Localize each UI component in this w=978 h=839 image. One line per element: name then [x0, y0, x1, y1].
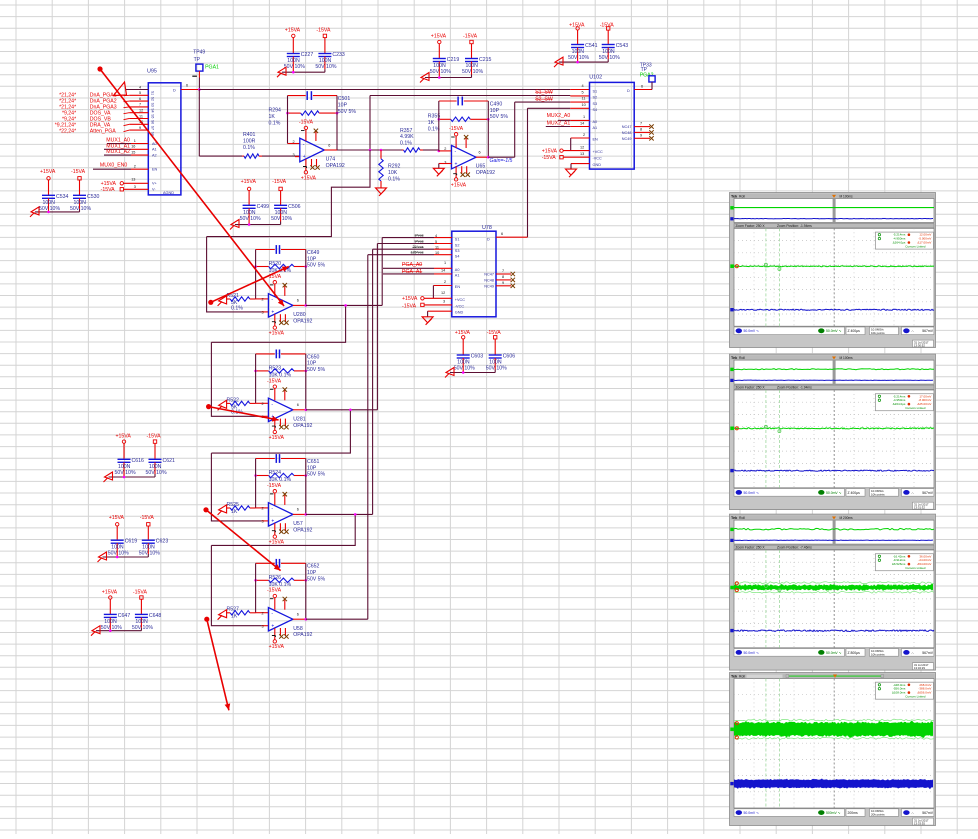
U102 pin A0 — [558, 119, 570, 121]
svg-text:50V 10%: 50V 10% — [101, 625, 122, 631]
svg-text:50V 10%: 50V 10% — [108, 551, 129, 557]
svg-text:1K: 1K — [269, 114, 276, 120]
svg-text:Z 400µs: Z 400µs — [848, 491, 861, 495]
svg-text:C606: C606 — [503, 354, 516, 360]
svg-text:+15VA: +15VA — [102, 589, 118, 595]
svg-text:13:31:32: 13:31:32 — [914, 506, 925, 510]
svg-text:C233: C233 — [332, 52, 345, 58]
scope 4 cursor readout — [875, 682, 933, 699]
svg-text:-15VA: -15VA — [101, 187, 116, 193]
svg-text:25*vos: 25*vos — [413, 245, 424, 249]
scope 2 date box — [913, 502, 934, 509]
svg-text:0.1%: 0.1% — [243, 145, 255, 151]
svg-text:C541: C541 — [585, 43, 598, 49]
svg-text:6: 6 — [186, 84, 188, 88]
ground flag for R527 — [218, 610, 227, 620]
svg-text:S4: S4 — [593, 108, 598, 112]
svg-text:GND: GND — [455, 311, 464, 315]
svg-text:13:32:29: 13:32:29 — [914, 666, 925, 670]
svg-text:-15VA: -15VA — [316, 28, 331, 34]
annotation arrow 4 — [203, 507, 208, 512]
svg-text:50.0mV ∿: 50.0mV ∿ — [744, 329, 760, 333]
ground flag for R525 — [218, 505, 227, 515]
wire R401 to U74 +input — [262, 155, 300, 157]
scope 3 date box — [913, 663, 934, 670]
ground for R292 — [376, 188, 387, 196]
svg-text:-15VA: -15VA — [272, 179, 287, 185]
svg-text:-VCC: -VCC — [455, 304, 465, 308]
wire net rail3 U65 out to U102.S3 — [515, 101, 571, 103]
svg-text:2: 2 — [262, 298, 264, 302]
svg-text:A0: A0 — [455, 268, 460, 272]
svg-text:EN: EN — [152, 168, 158, 172]
scope 1 channel 2 green trace — [734, 265, 934, 268]
svg-text:+15VA: +15VA — [269, 330, 285, 336]
svg-text:Zoom Factor: 250 X: Zoom Factor: 250 X — [736, 546, 766, 550]
svg-text:5: 5 — [582, 90, 584, 94]
svg-text:10P: 10P — [307, 256, 317, 262]
wire U74 feedback — [287, 96, 289, 144]
svg-text:Roll: Roll — [739, 356, 745, 360]
svg-text:6: 6 — [479, 151, 481, 155]
scope 1 zoom bar — [734, 224, 934, 228]
svg-text:2: 2 — [444, 280, 446, 284]
svg-text:50V 10%: 50V 10% — [115, 470, 136, 476]
svg-text:∴: ∴ — [912, 491, 914, 495]
svg-text:Δ6.526ms: Δ6.526ms — [892, 562, 906, 566]
svg-text:U57: U57 — [293, 521, 303, 527]
svg-text:A0: A0 — [152, 142, 157, 146]
svg-text:+15VA: +15VA — [455, 330, 471, 336]
svg-text:50.0mV ∿: 50.0mV ∿ — [826, 651, 842, 655]
capacitor C623 — [147, 526, 149, 540]
svg-text:14: 14 — [441, 269, 445, 273]
oscilloscope screenshot 4 frame — [730, 673, 936, 826]
svg-text:-15VA: -15VA — [402, 304, 417, 310]
svg-text:6: 6 — [328, 143, 330, 147]
svg-text:6: 6 — [641, 85, 643, 89]
scope 3 overview window — [734, 520, 934, 544]
svg-text:S5: S5 — [151, 114, 155, 118]
svg-text:C648: C648 — [149, 613, 162, 619]
svg-text:9: 9 — [502, 281, 504, 285]
scope 3 cursor readout — [875, 554, 933, 571]
svg-text:7: 7 — [502, 269, 504, 273]
svg-text:D: D — [627, 89, 630, 93]
scope 3 zoom bar — [734, 545, 934, 549]
scope 1 overview window — [734, 199, 934, 223]
svg-text:+: + — [271, 623, 274, 629]
svg-text:10P: 10P — [490, 108, 500, 114]
capacitor C227 — [292, 38, 294, 54]
svg-text:12: 12 — [441, 291, 445, 295]
svg-text:500mV ∿: 500mV ∿ — [826, 811, 841, 815]
annotation arrow 1 — [97, 66, 102, 71]
svg-text:Atten_PGA: Atten_PGA — [90, 129, 116, 135]
wire U280 stage input box — [207, 237, 262, 312]
svg-text:6: 6 — [297, 299, 299, 303]
svg-text:9: 9 — [640, 133, 642, 137]
scope 1 cursor readout — [875, 232, 933, 249]
svg-text:C219: C219 — [447, 57, 460, 63]
svg-text:-15VA: -15VA — [147, 433, 162, 439]
scope 4 bottom info bar — [734, 809, 845, 817]
U95 S input pins — [126, 89, 148, 91]
svg-text:0.1%: 0.1% — [269, 121, 281, 127]
svg-text:PGA_A0: PGA_A0 — [402, 262, 422, 268]
wire U65 output — [476, 156, 488, 158]
svg-text:EN: EN — [593, 138, 599, 142]
svg-text:OPA192: OPA192 — [476, 170, 495, 176]
wire U95.D down to R401 — [198, 90, 200, 157]
svg-text:C649: C649 — [307, 250, 320, 256]
svg-text:S1: S1 — [593, 89, 598, 93]
capacitor C652 10P — [256, 562, 275, 564]
svg-text:2: 2 — [583, 133, 585, 137]
scope 2 zoom bar — [734, 385, 934, 389]
svg-text:16: 16 — [131, 145, 135, 149]
ground wire for C534/C530 — [35, 211, 80, 213]
svg-text:50V 10%: 50V 10% — [132, 625, 153, 631]
svg-text:6: 6 — [139, 97, 141, 101]
svg-text:3: 3 — [134, 185, 136, 189]
ground flag for C219/C215 — [420, 73, 429, 83]
scope 2 channel 1 blue trace — [734, 470, 934, 471]
svg-text:10k points: 10k points — [871, 653, 885, 657]
svg-text:Zoom Position: -7.46ms: Zoom Position: -7.46ms — [777, 546, 812, 550]
svg-text:C621: C621 — [163, 458, 176, 464]
svg-text:Tek: Tek — [731, 516, 738, 520]
U281 unused pin X top — [284, 389, 286, 400]
svg-text:50V 10%: 50V 10% — [430, 69, 451, 75]
scope 4 channel 2 green trace — [734, 720, 933, 738]
U58 unused pins X bottom — [279, 628, 281, 636]
svg-text:C623: C623 — [156, 539, 169, 545]
wire net rail4 U78 out to U102.S4 — [528, 107, 571, 109]
svg-text:C652: C652 — [307, 564, 320, 570]
svg-text:50.0mV ∿: 50.0mV ∿ — [744, 651, 760, 655]
svg-text:50V 10%: 50V 10% — [462, 69, 483, 75]
capacitor C649 10P — [256, 249, 275, 251]
U65 unused pin X top — [465, 137, 467, 148]
svg-text:11: 11 — [139, 114, 143, 118]
scope 3 channel 2 green trace — [734, 584, 933, 592]
svg-text:Zoom Factor: 250 X: Zoom Factor: 250 X — [736, 386, 766, 390]
oscilloscope screenshot 1 frame — [730, 193, 936, 348]
svg-text:C490: C490 — [490, 101, 503, 107]
svg-text:Tek: Tek — [731, 675, 738, 679]
svg-text:0.1%: 0.1% — [400, 141, 412, 147]
op-amp U58 OPA192 — [268, 608, 293, 632]
svg-text:R292: R292 — [388, 164, 401, 170]
svg-text:1K: 1K — [428, 120, 435, 126]
svg-text:Δ264.0µs: Δ264.0µs — [893, 402, 906, 406]
svg-text:7: 7 — [139, 103, 141, 107]
svg-text:∴: ∴ — [912, 651, 914, 655]
svg-text:50V 10%: 50V 10% — [454, 366, 475, 372]
svg-text:13: 13 — [131, 178, 135, 182]
mux U102 — [590, 82, 635, 169]
svg-text:∴: ∴ — [912, 329, 914, 333]
wire U57 feedback — [255, 459, 257, 508]
svg-text:S1: S1 — [151, 91, 155, 95]
svg-text:U74: U74 — [326, 156, 336, 162]
svg-text:MUX1_A2: MUX1_A2 — [106, 149, 130, 155]
svg-text:R401: R401 — [243, 132, 256, 138]
capacitor C501 10P — [288, 95, 306, 97]
svg-text:8: 8 — [502, 275, 504, 279]
wire net rail1 U95.D to U102.S1 — [199, 89, 570, 91]
svg-text:15: 15 — [131, 150, 135, 154]
wire U74 output cascade to U280 +input — [207, 150, 370, 237]
svg-text:A0: A0 — [593, 120, 598, 124]
scope 4 date box — [913, 818, 934, 825]
svg-text:50V 10%: 50V 10% — [146, 470, 167, 476]
svg-text:567mV: 567mV — [922, 491, 933, 495]
svg-text:50.0mV ∿: 50.0mV ∿ — [826, 491, 842, 495]
wire net rail2 U74 out to U102.S2 — [370, 95, 570, 97]
svg-text:C603: C603 — [471, 354, 484, 360]
U65 +input ground — [439, 163, 452, 165]
svg-text:NC49: NC49 — [484, 284, 494, 288]
ground flag for C647/C648 — [91, 626, 100, 636]
ground flag for C534/C530 — [30, 207, 39, 217]
svg-text:-15VA: -15VA — [463, 33, 478, 39]
wire stage output to U78 S2 — [306, 409, 378, 411]
svg-text:Δ108.0ms: Δ108.0ms — [892, 691, 906, 695]
svg-text:+VCC: +VCC — [593, 150, 603, 154]
annotation arrow 3 — [206, 404, 211, 409]
svg-text:+15VA: +15VA — [451, 182, 467, 188]
svg-text:Cursors Linked: Cursors Linked — [905, 695, 926, 699]
svg-text:NC47: NC47 — [622, 125, 632, 129]
capacitor C619 — [116, 526, 118, 540]
svg-text:6: 6 — [297, 508, 299, 512]
svg-text:50.0mV ∿: 50.0mV ∿ — [744, 811, 760, 815]
ground wire for C619/C623 — [103, 556, 149, 558]
wire TP49 to output rail — [198, 71, 200, 77]
ground flag for R521 — [218, 296, 227, 306]
svg-text:Zoom Position: -1.94ms: Zoom Position: -1.94ms — [777, 386, 812, 390]
svg-text:S1: S1 — [455, 237, 460, 241]
scope 1 main graticule window — [734, 228, 934, 326]
svg-text:S6: S6 — [151, 120, 155, 124]
svg-text:V+: V+ — [152, 182, 158, 186]
scope 1 bottom info bar — [734, 327, 845, 335]
svg-text:R522: R522 — [227, 397, 240, 403]
svg-text:S4: S4 — [455, 255, 460, 259]
svg-text:+15VA: +15VA — [269, 539, 285, 545]
capacitor C215 — [471, 44, 473, 59]
svg-text:4: 4 — [582, 84, 584, 88]
wire stage output to U78 S3 — [306, 513, 373, 515]
capacitor C541 — [577, 30, 579, 44]
mux U95 — [148, 83, 181, 195]
svg-text:A2: A2 — [152, 153, 157, 157]
U281 +15VA supply — [273, 430, 276, 433]
svg-text:+15VA: +15VA — [40, 169, 56, 175]
ground for U78 — [422, 317, 433, 325]
ground flag for C541/C543 — [554, 57, 563, 67]
U78 GND pin — [428, 310, 452, 312]
wire U57 output — [293, 513, 306, 515]
svg-text:0.1%: 0.1% — [231, 305, 243, 311]
scope 2 channel 2 green trace — [734, 428, 934, 429]
U281 unused pins X bottom — [279, 419, 281, 427]
svg-text:567mV: 567mV — [922, 329, 933, 333]
ground flag for C603/C606 — [445, 368, 454, 378]
svg-text:+15VA: +15VA — [431, 33, 447, 39]
ground wire for C227/C233 — [282, 71, 325, 73]
svg-text:6: 6 — [297, 403, 299, 407]
ground wire for C616/C621 — [109, 476, 156, 478]
ground wire for C541/C543 — [559, 61, 608, 63]
resistor R292 10K 0.1% to ground — [380, 150, 382, 159]
svg-text:4.99K: 4.99K — [400, 134, 414, 140]
svg-text:4: 4 — [139, 85, 141, 89]
svg-text:GND: GND — [593, 163, 602, 167]
svg-text:U281: U281 — [293, 416, 306, 422]
ground wire for C499/C506 — [235, 224, 281, 226]
svg-text:S1_SW: S1_SW — [535, 90, 553, 96]
wire U281 feedback — [255, 354, 257, 403]
svg-text:20k points: 20k points — [871, 813, 885, 817]
svg-text:C499: C499 — [257, 204, 270, 210]
capacitor C490 10P — [439, 100, 457, 102]
svg-text:S7: S7 — [151, 126, 155, 130]
capacitor C506 — [280, 191, 282, 206]
svg-text:C227: C227 — [301, 52, 314, 58]
ground for U102 — [566, 169, 577, 177]
U102 pin A1 — [546, 126, 571, 128]
svg-text:U102: U102 — [589, 75, 602, 81]
svg-text:-15VA: -15VA — [133, 589, 148, 595]
svg-text:100R: 100R — [243, 138, 256, 144]
svg-text:10k points: 10k points — [871, 493, 885, 497]
svg-text:Zoom Factor: 250 X: Zoom Factor: 250 X — [736, 224, 766, 228]
svg-text:S2: S2 — [455, 243, 460, 247]
svg-text:3*vos: 3*vos — [415, 234, 424, 238]
capacitor C606 — [494, 339, 496, 355]
svg-text:OPA192: OPA192 — [293, 318, 312, 324]
svg-text:200ms: 200ms — [848, 811, 858, 815]
svg-text:C651: C651 — [307, 459, 320, 465]
svg-text:13: 13 — [580, 152, 584, 156]
svg-text:+15VA: +15VA — [285, 28, 301, 34]
U102 EN pin — [571, 137, 590, 139]
svg-text:C619: C619 — [125, 539, 138, 545]
capacitor C534 — [48, 180, 50, 195]
svg-text:12: 12 — [580, 145, 584, 149]
svg-text:OPA192: OPA192 — [293, 527, 312, 533]
svg-text:50V 10%: 50V 10% — [486, 366, 507, 372]
svg-text:10P: 10P — [338, 102, 348, 108]
wire U281 output cascade to U57 +input — [211, 410, 350, 453]
svg-text:NC47: NC47 — [484, 273, 494, 277]
op-amp U280 OPA192 — [268, 294, 293, 318]
svg-text:11: 11 — [582, 97, 586, 101]
svg-text:1: 1 — [583, 115, 585, 119]
svg-text:+15VA: +15VA — [402, 296, 418, 302]
U78 EN pin — [433, 285, 451, 287]
scope 1 date box — [913, 340, 934, 347]
svg-text:D: D — [487, 237, 490, 241]
svg-text:-VCC: -VCC — [593, 157, 603, 161]
U65 +15VA supply — [454, 178, 457, 181]
scope 1 channel 1 blue trace — [734, 309, 934, 310]
op-amp U65 OPA192 — [452, 145, 477, 169]
svg-text:+15VA: +15VA — [241, 179, 257, 185]
capacitor C647 — [109, 599, 111, 614]
U57 unused pins X bottom — [279, 523, 281, 531]
svg-text:+15VA: +15VA — [116, 433, 132, 439]
ground flag for C227/C233 — [277, 67, 286, 77]
svg-text:Z 800µs: Z 800µs — [848, 651, 861, 655]
svg-text:S4: S4 — [151, 108, 155, 112]
svg-text:+15VA: +15VA — [542, 149, 558, 155]
annotation arrow 5 — [204, 617, 209, 622]
svg-text:3: 3 — [262, 624, 264, 628]
svg-text:+15VA: +15VA — [269, 644, 285, 650]
U74 unused pins X bottom — [311, 159, 313, 167]
svg-text:Cursors Linked: Cursors Linked — [905, 244, 926, 248]
svg-text:0.1%: 0.1% — [388, 177, 400, 183]
svg-text:567mV: 567mV — [922, 811, 933, 815]
svg-text:Roll: Roll — [739, 675, 745, 679]
svg-text:50V 10%: 50V 10% — [70, 206, 91, 212]
svg-text:6: 6 — [501, 232, 503, 236]
scope 4 main graticule window — [734, 679, 934, 809]
svg-text:A1: A1 — [152, 148, 157, 152]
capacitor C543 — [607, 30, 609, 44]
svg-text:U58: U58 — [293, 626, 303, 632]
wire U57 output cascade to U58 +input — [211, 514, 355, 545]
wire U281 output — [293, 409, 306, 411]
svg-text:-15VA: -15VA — [71, 169, 86, 175]
svg-text:Roll: Roll — [739, 195, 745, 199]
svg-text:10: 10 — [582, 103, 586, 107]
svg-text:C506: C506 — [288, 204, 301, 210]
svg-text:+15VA: +15VA — [109, 515, 125, 521]
oscilloscope screenshot 3 frame — [730, 514, 936, 670]
svg-text:C534: C534 — [56, 194, 69, 200]
wire stage output to U78 S1 — [306, 304, 382, 306]
svg-text:R294: R294 — [269, 108, 282, 114]
scope 3 bottom info bar — [734, 649, 845, 657]
capacitor C233 — [324, 38, 326, 54]
ground flag for C619/C623 — [98, 552, 107, 562]
svg-text:13:33:35: 13:33:35 — [914, 822, 925, 826]
U58 unused pin X top — [284, 599, 286, 610]
svg-text:50V 10%: 50V 10% — [240, 216, 261, 222]
svg-text:Z 400µs: Z 400µs — [848, 329, 861, 333]
svg-text:M 100ms: M 100ms — [840, 194, 854, 198]
svg-text:A1: A1 — [593, 126, 598, 130]
wire U280 output cascade to U281 +input — [211, 305, 345, 342]
U78 pin A0 — [383, 267, 434, 269]
svg-text:EN: EN — [455, 285, 461, 289]
capacitor C603 — [462, 339, 464, 355]
svg-text:2: 2 — [262, 402, 264, 406]
svg-text:C543: C543 — [616, 43, 629, 49]
svg-text:8: 8 — [640, 127, 642, 131]
svg-text:S2_SW: S2_SW — [535, 97, 553, 103]
wire U58 stage input box — [211, 545, 261, 625]
svg-text:D: D — [173, 88, 176, 92]
capacitor C530 — [79, 180, 81, 195]
U65 unused pins X bottom — [461, 166, 463, 174]
svg-text:2: 2 — [262, 611, 264, 615]
